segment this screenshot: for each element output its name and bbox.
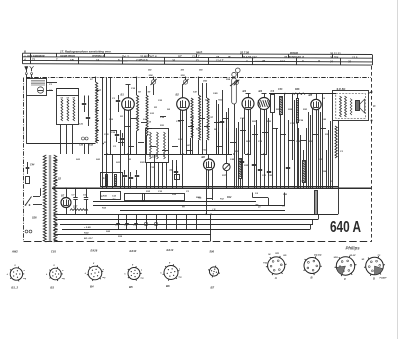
svg-text:640 A: 640 A (330, 219, 361, 236)
wire HT rail (102, 77, 104, 188)
wire step (310, 225, 312, 230)
transformer T1 secondary winding (54, 155, 57, 242)
svg-text:1ΩΩ: 1ΩΩ (205, 100, 210, 102)
wire (118, 220, 120, 225)
svg-text:R26: R26 (295, 88, 300, 91)
wire (208, 170, 210, 188)
wire band line (120, 210, 285, 212)
wire (272, 113, 274, 188)
wire (33, 196, 40, 198)
wire step (312, 220, 314, 225)
transformer taps (54, 160, 58, 162)
svg-text:506: 506 (210, 250, 215, 254)
wire (318, 109, 320, 188)
svg-text:3Ω: 3Ω (362, 259, 365, 261)
wire (240, 178, 242, 188)
wire (368, 92, 372, 94)
wire (57, 88, 78, 90)
wire (136, 77, 138, 95)
svg-text:B4: B4 (259, 89, 263, 93)
wire (146, 136, 148, 154)
svg-text:A.: A. (23, 58, 27, 62)
wire heater line 1 (57, 214, 338, 216)
wire mid line a (93, 201, 256, 203)
component box (175, 175, 180, 180)
svg-text:nach: nach (196, 50, 203, 54)
svg-text:13.9: 13.9 (352, 56, 358, 60)
wire comb right (294, 100, 296, 188)
svg-text:R1Ω: R1Ω (84, 232, 89, 234)
output transformer winding 1 (340, 96, 342, 117)
svg-text:B: B (24, 49, 26, 53)
wire (130, 110, 132, 155)
wire (284, 94, 286, 189)
wire antenna lead (26, 75, 28, 80)
coil S1 winding (31, 80, 45, 82)
svg-text:11.4 T: 11.4 T (216, 59, 224, 63)
tube B1 (122, 98, 135, 111)
capacitor C28 (123, 175, 127, 177)
lamp (144, 222, 147, 225)
svg-text:B5: B5 (129, 285, 133, 289)
oscillator coil box S17 (146, 129, 169, 163)
svg-text:GEWIJZIGD: GEWIJZIGD (60, 54, 75, 58)
svg-text:EI: EI (196, 59, 199, 63)
wire main earth bus (52, 187, 371, 189)
wire (66, 208, 68, 215)
small capacitor C22 (86, 117, 90, 119)
svg-text:Philips: Philips (346, 246, 361, 251)
wire (124, 110, 126, 155)
capacitor C7 (73, 197, 77, 199)
wire (186, 110, 188, 155)
wire comb upper (120, 130, 122, 154)
wire (338, 121, 340, 188)
svg-text:1/6: 1/6 (70, 58, 74, 62)
wire (33, 204, 42, 206)
coil S27 (70, 209, 88, 211)
svg-text:25.756: 25.756 (329, 56, 339, 60)
wire (266, 109, 268, 154)
switch S26 (26, 197, 32, 206)
svg-text:III: III (228, 55, 230, 59)
wire (182, 84, 184, 98)
wire second bus (100, 186, 338, 188)
wire (84, 96, 86, 99)
speaker box inner dashed (336, 94, 366, 119)
speaker cone (360, 99, 365, 113)
capacitor C10 (125, 223, 129, 225)
node dots on bus (65, 187, 67, 189)
potentiometer R14 (232, 78, 237, 104)
wire (198, 140, 200, 154)
wire (180, 110, 182, 155)
svg-text:B7: B7 (211, 286, 215, 290)
svg-text:S.P. 8Ω: S.P. 8Ω (337, 87, 346, 91)
capacitor C3 (116, 100, 120, 102)
socket B6 (164, 266, 178, 280)
wire grid cap B3 (248, 93, 250, 97)
svg-text:24: 24 (329, 59, 333, 63)
capacitor C31 (220, 121, 224, 123)
resistor R24 (239, 159, 242, 179)
terminal (371, 91, 373, 93)
svg-text:EA30: EA30 (130, 249, 137, 253)
tube B6 (204, 159, 215, 170)
connector D (366, 257, 384, 275)
capacitor C9 (116, 223, 120, 225)
coil S16 (157, 132, 159, 159)
wire comb (112, 154, 114, 188)
wire (128, 110, 130, 188)
socket B1, 2 (10, 268, 22, 280)
svg-text:S27: S27 (73, 206, 78, 209)
svg-text:2.305 Ω 6: 2.305 Ω 6 (135, 58, 148, 62)
wire (84, 144, 86, 155)
wire (303, 150, 305, 160)
socket B3 (50, 268, 62, 280)
bottom boundary dashed line (24, 241, 372, 243)
trimmer C13 (235, 81, 239, 85)
svg-text:36Ω: 36Ω (203, 81, 207, 83)
capacitor C30 (135, 175, 139, 177)
svg-text:32 MIJCHT. 6: 32 MIJCHT. 6 (140, 54, 157, 58)
earth Y symbol (30, 66, 34, 68)
wire (212, 170, 214, 201)
tube B7 (61, 198, 71, 208)
connector C stubs (348, 256, 351, 258)
svg-text:28 31 33.: 28 31 33. (329, 51, 341, 55)
wire (198, 77, 200, 95)
svg-text:P1Ω: P1Ω (263, 263, 267, 265)
resistor R7 (106, 175, 108, 186)
connector B stubs (314, 256, 317, 258)
svg-text:57Ω: 57Ω (275, 253, 279, 255)
wire (250, 109, 252, 154)
svg-text:R2Ω: R2Ω (196, 197, 201, 199)
wire (326, 150, 328, 188)
wire (66, 125, 68, 154)
small capacitor C21 (82, 103, 86, 105)
wire (284, 193, 286, 206)
mains plug (25, 230, 28, 233)
coil S15 (150, 132, 152, 159)
trimmer C12 (183, 80, 187, 84)
wire (95, 77, 97, 82)
resistor R23 box (271, 95, 275, 113)
component box band left (125, 194, 145, 201)
wire grid cap (128, 85, 130, 98)
gramophone input O (236, 68, 241, 73)
svg-text:B1, 2: B1, 2 (11, 286, 18, 290)
wire (206, 170, 208, 215)
wire (280, 115, 282, 188)
svg-text:EA26: EA26 (91, 249, 98, 253)
capacitor C44 (26, 167, 30, 169)
output choke winding (335, 126, 337, 158)
svg-text:Tel. 2: Tel. 2 (122, 54, 129, 58)
svg-text:P1ΩΩP: P1ΩΩP (380, 278, 388, 280)
wire heater line 3 (60, 224, 313, 226)
svg-text:+ 5.4Ω: + 5.4Ω (84, 226, 91, 229)
hum coil (350, 99, 352, 116)
tube B2 (177, 98, 190, 111)
connector A stubs (279, 256, 282, 258)
connector B (304, 258, 320, 274)
wire stub (46, 82, 57, 84)
coil 53 (67, 99, 69, 121)
wire L8 drop (210, 214, 212, 241)
svg-text:2Ω-Ω7: 2Ω-Ω7 (349, 255, 357, 257)
wire step (318, 214, 320, 219)
svg-text:25.7.56: 25.7.56 (239, 50, 249, 54)
meter M (223, 163, 230, 170)
node (284, 93, 286, 95)
wire (218, 104, 220, 154)
svg-text:25: 25 (261, 59, 265, 63)
coil 52 (61, 99, 63, 121)
switch disc B0 (37, 87, 43, 93)
scan edge line (397, 0, 399, 339)
svg-text:2Ω(-2Ω): 2Ω(-2Ω) (313, 255, 322, 257)
wire (60, 125, 62, 154)
wire (330, 121, 332, 188)
svg-text:B3: B3 (50, 286, 54, 290)
wire stub (130, 148, 132, 154)
resistor R16 box (101, 192, 121, 200)
wire (88, 96, 90, 113)
wire heater line 2 (58, 219, 318, 221)
speaker magnet (356, 101, 360, 111)
wire (322, 94, 324, 189)
capacitor C39 (258, 169, 262, 171)
svg-text:P1Ω: P1Ω (202, 150, 207, 152)
wire horizontal (26, 143, 95, 145)
transformer tap dots (56, 187, 58, 189)
svg-text:S26: S26 (32, 216, 37, 220)
lamp (154, 222, 157, 225)
thick dropper resistor (315, 191, 318, 215)
coil S18 (164, 132, 166, 159)
svg-text:A: A (274, 276, 277, 280)
svg-text:11.3: 11.3 (280, 59, 285, 63)
coil S11 winding (207, 98, 209, 140)
choke box L7 (101, 173, 123, 187)
aerial coil box S1 (27, 79, 47, 96)
node (331, 187, 333, 189)
svg-text:25: 25 (171, 58, 175, 62)
wire (248, 110, 250, 189)
trimmer C10 (151, 80, 155, 84)
svg-text:43.4-52.3 kc: 43.4-52.3 kc (241, 55, 258, 59)
svg-text:17. Radiogramofoon aansluiting: 17. Radiogramofoon aansluiting verv. (60, 50, 112, 54)
left boundary dash-dot line (23, 78, 25, 242)
wire (206, 140, 208, 154)
capacitor C38 (252, 164, 256, 166)
svg-text:D: D (373, 277, 375, 281)
component box band right (143, 194, 185, 201)
svg-text:EA13: EA13 (167, 248, 174, 252)
node dots centre (127, 153, 129, 155)
svg-text:C4: C4 (271, 89, 275, 93)
trimmer arrow (230, 80, 238, 86)
capacitor C29 (129, 177, 133, 179)
wire (297, 94, 299, 100)
table column dividers (30, 53, 32, 57)
wire stubs centre band (110, 130, 116, 132)
wire (312, 109, 314, 188)
wire comb centre (236, 128, 238, 188)
wire (208, 154, 210, 159)
wire grid cap B4 (264, 93, 266, 97)
svg-text:R12: R12 (227, 196, 232, 199)
wire (136, 131, 138, 154)
resistor R31 (303, 161, 306, 183)
connector D stubs (377, 256, 380, 258)
svg-text:u. GOLFBEREIK: u. GOLFBEREIK (24, 54, 46, 58)
svg-text:1ΩΩ: 1ΩΩ (334, 257, 339, 259)
wire drops below bus (118, 214, 120, 229)
svg-text:B1: B1 (121, 93, 125, 97)
transformer T1 primary winding (43, 155, 46, 242)
svg-text:B2: B2 (176, 93, 180, 97)
svg-text:C03: C03 (51, 250, 56, 254)
svg-text:B6: B6 (166, 284, 170, 288)
wire (154, 154, 156, 163)
socket B7 (209, 267, 218, 276)
wire screen rail (106, 77, 108, 188)
svg-text:B6: B6 (202, 155, 206, 159)
wire (190, 138, 192, 154)
speaker box outer (333, 91, 369, 121)
coil S8 winding (137, 95, 139, 131)
wire (316, 94, 318, 100)
right boundary dashed line (371, 66, 373, 242)
wire (264, 110, 266, 189)
wire (182, 110, 184, 188)
wire (226, 112, 228, 160)
connector C (336, 257, 354, 275)
svg-text:32 MIJNGHEL 6: 32 MIJNGHEL 6 (284, 55, 304, 59)
wire AVC line (104, 154, 232, 156)
svg-text:ROHR: ROHR (290, 51, 298, 55)
svg-text:C4Ω: C4Ω (213, 92, 218, 95)
top boundary dash-dot line (26, 77, 371, 79)
band coil box S2-S6 (57, 96, 79, 125)
tube B4 (258, 98, 270, 110)
capacitor C24 (115, 134, 119, 136)
svg-text:C33: C33 (278, 88, 283, 91)
coil S7 winding (96, 82, 98, 143)
wire (26, 96, 28, 144)
wire stub (46, 90, 53, 92)
svg-text:ΩΩ: ΩΩ (282, 255, 287, 257)
wire (216, 100, 218, 154)
wire (244, 109, 246, 154)
svg-text:OSTMA 4: OSTMA 4 (92, 54, 104, 58)
resistor R9 (115, 175, 117, 186)
wire (332, 121, 334, 188)
wire plate supply (269, 93, 336, 95)
wire (146, 86, 148, 95)
wire (66, 188, 68, 197)
wire stubs mid (125, 154, 131, 156)
title block table (23, 53, 373, 54)
wire bracket (253, 197, 268, 199)
svg-text:B5: B5 (309, 93, 313, 97)
coil 56 (73, 99, 75, 121)
connector A (268, 257, 285, 274)
capacitor C6 (84, 197, 88, 199)
wire (202, 83, 204, 154)
coil S10a winding (191, 98, 193, 138)
svg-text:DT: DT (178, 55, 182, 59)
svg-text:C3Ω: C3Ω (240, 118, 245, 120)
wire (222, 90, 224, 154)
resistor R26 (294, 93, 305, 95)
terminal (371, 120, 373, 122)
capacitor C41 (267, 171, 271, 173)
resistor R27 (280, 97, 283, 115)
capacitor C25 (120, 138, 124, 140)
wire mid line b (93, 205, 285, 207)
wire dial lamp line (57, 234, 211, 236)
capacitor C11 (134, 223, 138, 225)
svg-text:EΩ. 25.7: EΩ. 25.7 (84, 238, 93, 240)
tube B3 (242, 98, 254, 110)
svg-text:AW2: AW2 (11, 250, 18, 254)
svg-text:15: 15 (216, 55, 219, 59)
wire (110, 77, 112, 154)
wire taps on coil bar (96, 90, 100, 92)
tube B5 (311, 99, 321, 109)
svg-text:B: B (311, 275, 313, 279)
socket B4 (88, 266, 102, 280)
wire step (338, 188, 340, 214)
svg-text:B4: B4 (90, 285, 94, 289)
coil S9 winding (146, 95, 148, 136)
output transformer winding 2 (345, 96, 347, 117)
node dots on top line (95, 77, 97, 79)
coil S10 winding (199, 95, 201, 140)
antenna symbol (26, 67, 28, 73)
svg-text:B3: B3 (243, 89, 247, 93)
wire (72, 125, 74, 154)
wire bias line (62, 229, 310, 231)
socket B5 (128, 268, 140, 280)
wire (316, 110, 318, 189)
capacitor C8 (174, 171, 178, 173)
svg-text:11.4 T: 11.4 T (192, 55, 200, 59)
capacitor C40 (286, 167, 290, 169)
transformer T1 core (48, 155, 50, 242)
wire (260, 109, 262, 154)
svg-text:R1Ω: R1Ω (140, 162, 145, 164)
resistor R30 (297, 99, 299, 123)
node (292, 93, 294, 95)
wire (292, 94, 294, 161)
svg-text:C2Ω: C2Ω (104, 134, 109, 136)
wire (206, 83, 208, 98)
wire (228, 108, 230, 154)
svg-text:C44: C44 (30, 164, 35, 167)
twin trimmer discs (82, 137, 85, 140)
svg-text:Ω: Ω (317, 59, 320, 63)
capacitor C37 (240, 161, 244, 163)
fuse (26, 177, 30, 184)
